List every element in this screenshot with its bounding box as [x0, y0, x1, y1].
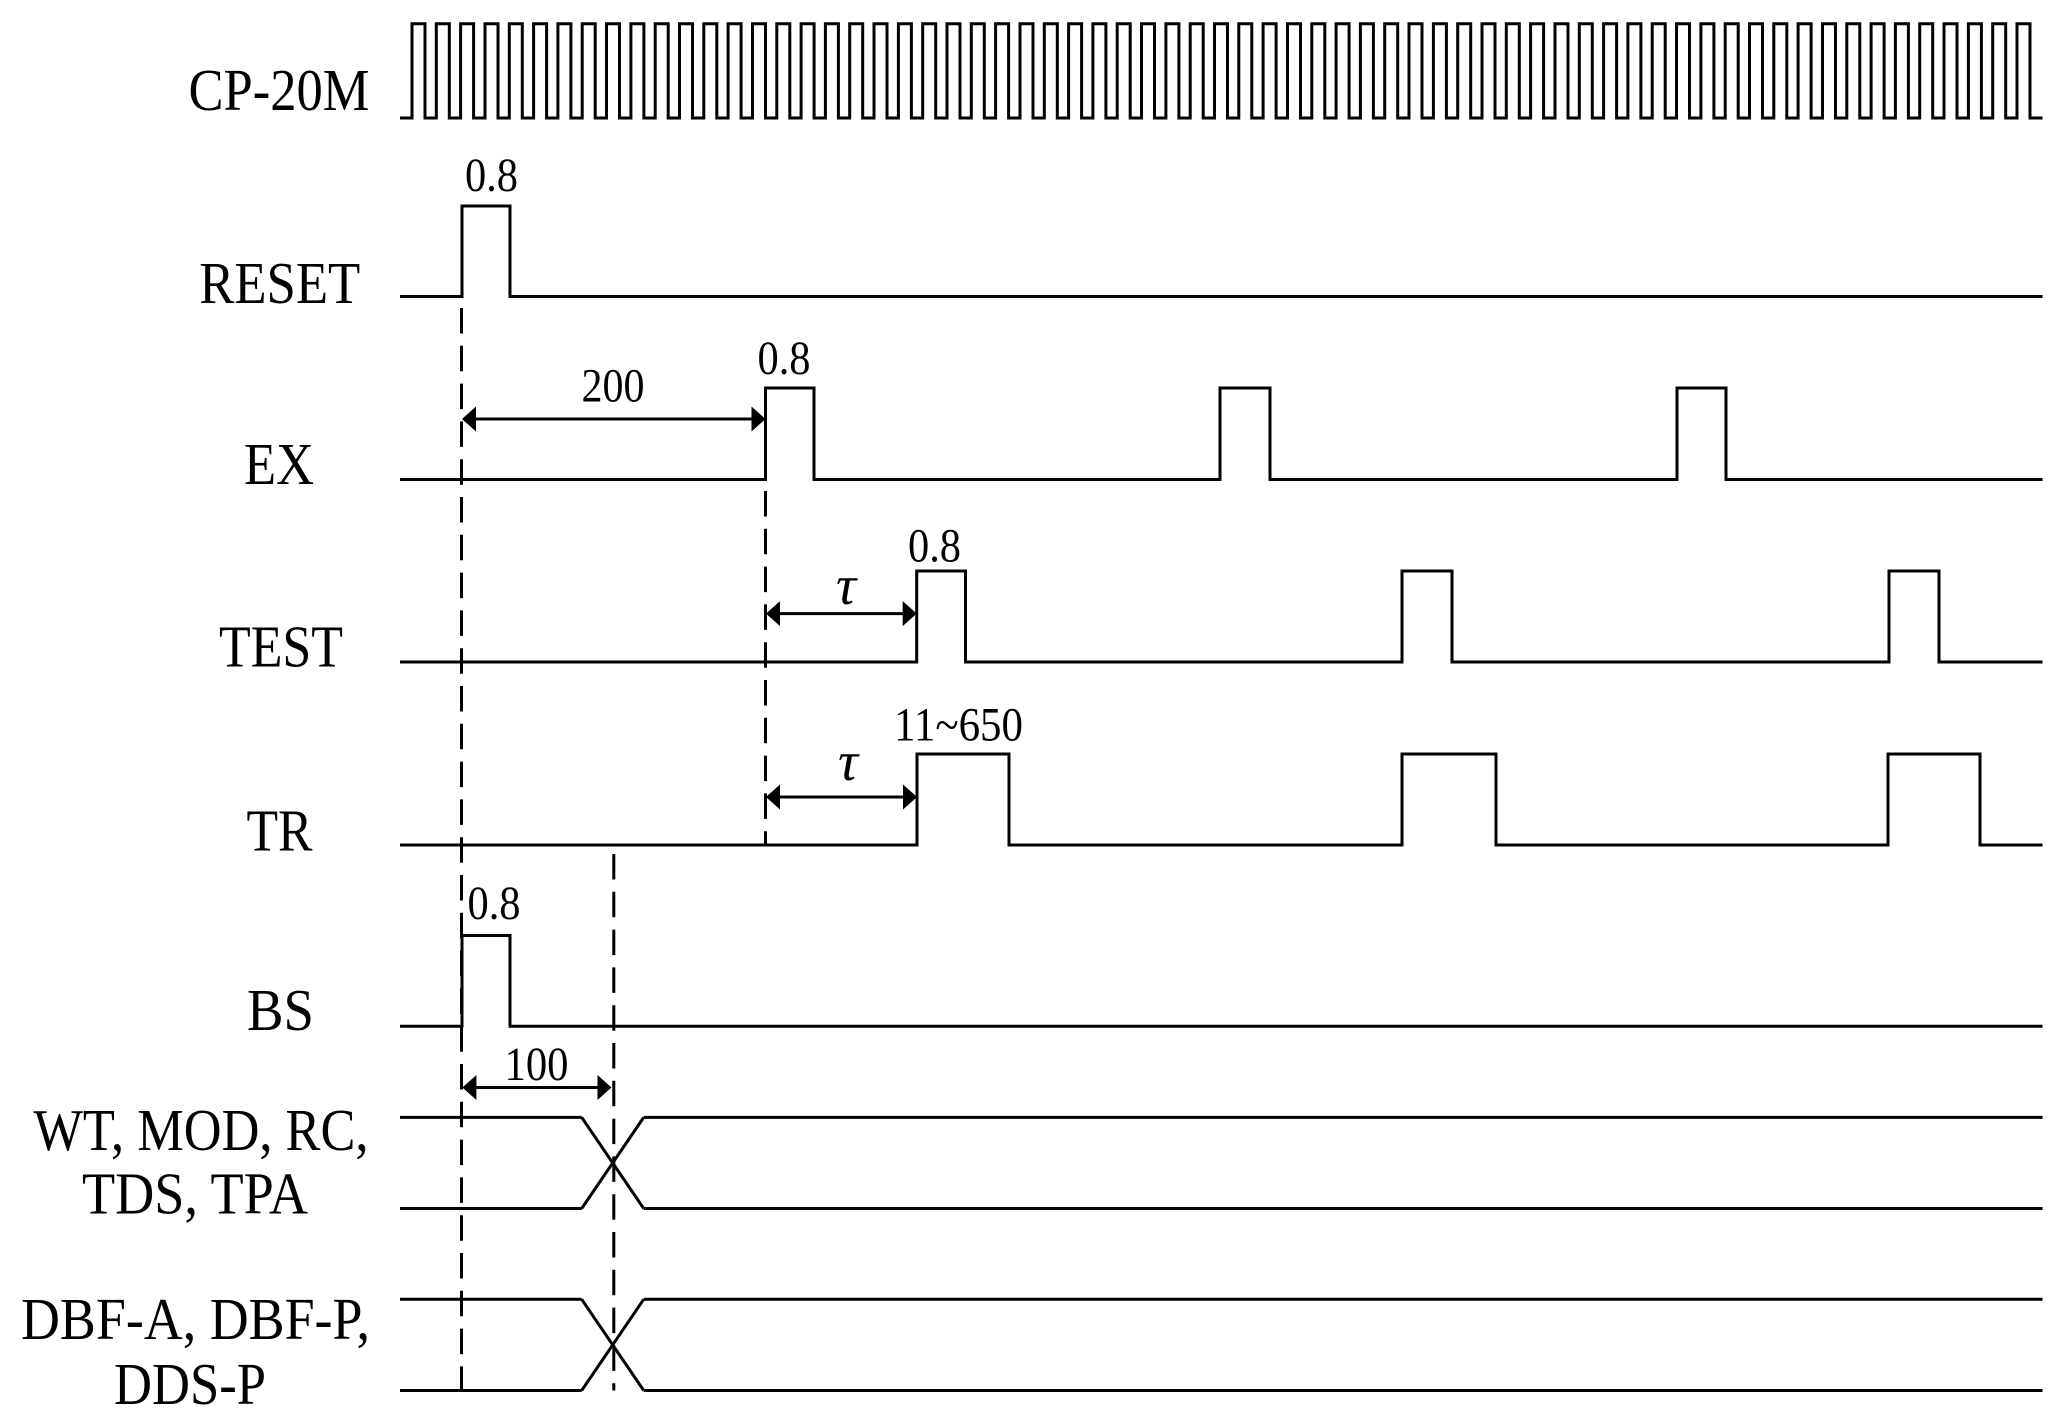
dimension arrow 100 ns delay: right arrowhead: [598, 1075, 612, 1100]
svg-text:RESET: RESET: [199, 250, 360, 316]
svg-text:TDS, TPA: TDS, TPA: [82, 1161, 308, 1227]
bus WT/MOD/RC/TDS/TPA: crossover rising diagonal: [582, 1117, 644, 1208]
dimension arrow 100 ns delay: shaft: [475, 1086, 598, 1089]
bus WT/MOD/RC/TDS/TPA: upper rail left segment: [400, 1116, 582, 1119]
svg-text:0.8: 0.8: [465, 149, 518, 202]
svg-text:DDS-P: DDS-P: [114, 1351, 266, 1417]
bus DBF-A/DBF-P/DDS-P: upper rail left segment: [400, 1298, 582, 1301]
signal TEST: waveform with three pulses: [400, 571, 2043, 662]
signal CP-20M: 20 MHz clock waveform: [400, 24, 2043, 118]
svg-text:0.8: 0.8: [758, 332, 811, 385]
svg-text:TR: TR: [247, 798, 314, 864]
dimension arrow 200 ns delay: left arrowhead: [462, 407, 476, 432]
svg-text:BS: BS: [247, 977, 314, 1043]
svg-text:100: 100: [505, 1038, 569, 1091]
svg-text:τ: τ: [838, 731, 860, 793]
svg-text:τ: τ: [836, 555, 858, 617]
svg-text:CP-20M: CP-20M: [189, 57, 370, 123]
signal EX: waveform with three pulses: [400, 388, 2043, 480]
signal BS: waveform with single pulse (width 0.8): [400, 936, 2043, 1027]
signal TR: waveform with three wide pulses: [400, 754, 2043, 845]
bus DBF-A/DBF-P/DDS-P: lower rail left segment: [400, 1389, 582, 1392]
svg-text:0.8: 0.8: [468, 877, 521, 930]
dimension arrow 200 ns delay: right arrowhead: [752, 407, 766, 432]
bus DBF-A/DBF-P/DDS-P: upper rail right segment: [644, 1298, 2043, 1301]
bus DBF-A/DBF-P/DDS-P: crossover falling diagonal: [582, 1299, 644, 1390]
dimension arrow 200 ns delay: shaft: [475, 418, 753, 421]
dimension arrow tau delay (TR): right arrowhead: [903, 785, 917, 810]
dashed timing reference line at RESET/BS pulse rising edge: [460, 308, 463, 1391]
svg-text:0.8: 0.8: [908, 520, 961, 573]
bus WT/MOD/RC/TDS/TPA: lower rail left segment: [400, 1207, 582, 1210]
bus DBF-A/DBF-P/DDS-P: crossover rising diagonal: [582, 1299, 644, 1390]
dashed timing reference line at EX first pulse rising edge: [764, 491, 767, 845]
bus WT/MOD/RC/TDS/TPA: upper rail right segment: [644, 1116, 2043, 1119]
dimension arrow tau delay (TR): shaft: [779, 796, 904, 799]
dimension arrow tau delay (TEST): left arrowhead: [766, 601, 780, 626]
bus DBF-A/DBF-P/DDS-P: lower rail right segment: [644, 1389, 2043, 1392]
svg-text:TEST: TEST: [219, 614, 343, 680]
svg-text:EX: EX: [244, 431, 314, 497]
svg-text:WT, MOD, RC,: WT, MOD, RC,: [34, 1097, 369, 1163]
svg-text:200: 200: [582, 360, 645, 413]
dimension arrow 100 ns delay: left arrowhead: [462, 1075, 476, 1100]
dimension arrow tau delay (TEST): right arrowhead: [903, 601, 917, 626]
svg-text:DBF-A, DBF-P,: DBF-A, DBF-P,: [21, 1286, 370, 1352]
dimension arrow tau delay (TR): left arrowhead: [766, 785, 780, 810]
bus WT/MOD/RC/TDS/TPA: lower rail right segment: [644, 1207, 2043, 1210]
bus WT/MOD/RC/TDS/TPA: crossover falling diagonal: [582, 1117, 644, 1208]
dimension arrow tau delay (TEST): shaft: [779, 612, 904, 615]
svg-text:11~650: 11~650: [894, 699, 1023, 752]
dashed timing reference line at bus data change (100 ns after BS): [612, 854, 615, 1391]
signal RESET: waveform with single pulse (width 0.8): [400, 206, 2043, 297]
